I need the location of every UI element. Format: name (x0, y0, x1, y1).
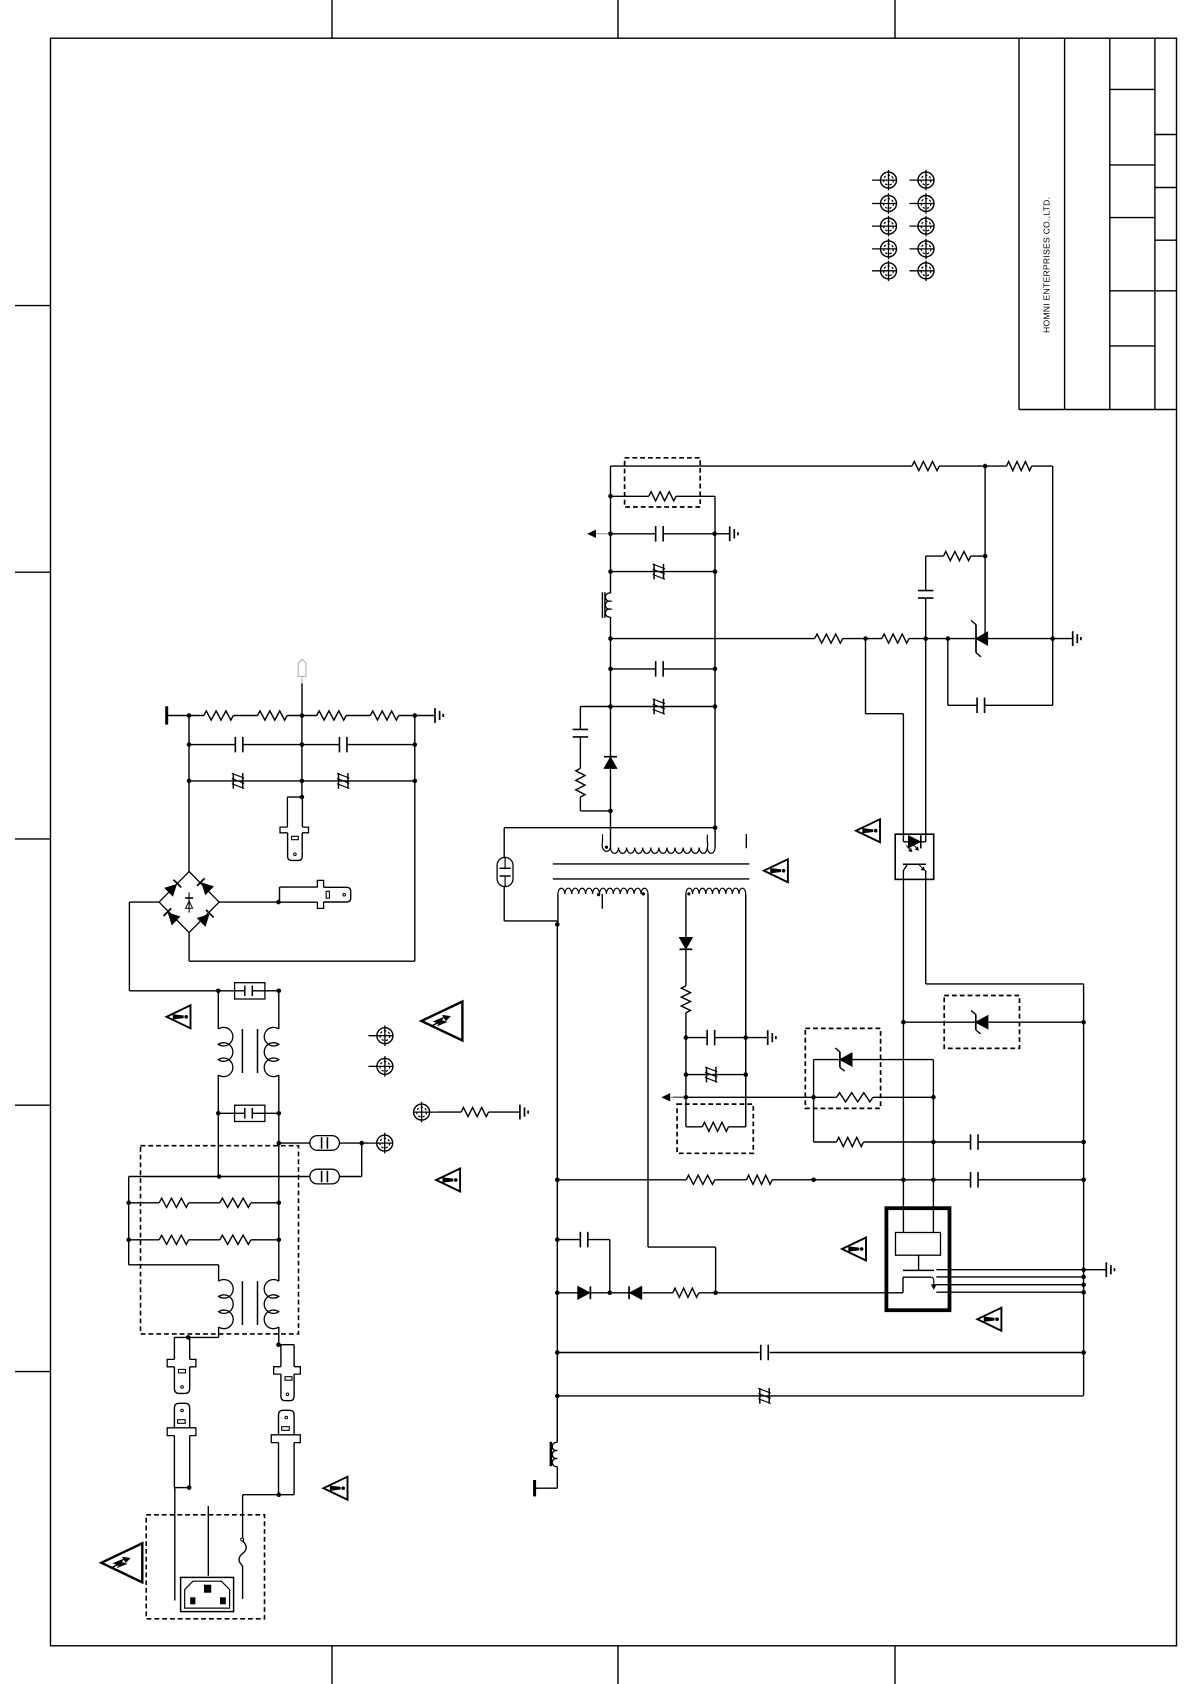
capacitor C3 (655, 526, 657, 542)
wire rrow1 (129, 1202, 160, 1204)
node rb zener (1081, 1020, 1086, 1025)
IC U1 box (886, 1208, 949, 1310)
node row3 center (300, 779, 305, 784)
border tick left 2 (15, 571, 51, 573)
capacitor C9 (970, 1134, 972, 1150)
neon lamp NE1 (497, 857, 513, 886)
fusible resistor F1 (232, 773, 234, 789)
wire pill2 row left (129, 1176, 310, 1178)
node sec1 left (555, 922, 560, 927)
resistor R2 (258, 711, 288, 720)
IC pin 4 (936, 1291, 1083, 1293)
high voltage triangle W9 (101, 1543, 142, 1582)
node 1075 a (684, 1072, 689, 1077)
wire U-link (129, 1264, 219, 1266)
resistor R23 (673, 1288, 699, 1297)
faston tab P3 (173, 1337, 175, 1359)
fusible resistor F4 (653, 564, 655, 580)
AC inlet J10 (181, 1577, 234, 1611)
border tick top 1 (331, 0, 333, 38)
terminal J3b (918, 218, 934, 234)
left snubber bus (610, 466, 612, 593)
wire cap row 1240 (557, 1239, 580, 1241)
capacitor C12 (760, 1345, 762, 1361)
resistor R16 (576, 768, 585, 797)
node row1 center (300, 713, 305, 718)
bridge rectifier BD1 outline (159, 872, 219, 933)
wire comp row (947, 639, 949, 706)
wire hatch row 1075 (686, 1074, 746, 1076)
terminal E2 (377, 1058, 393, 1074)
wire main row 1180 (557, 1179, 686, 1181)
capacitor CY2 pill (310, 1169, 340, 1184)
IC pin 3 (936, 1284, 1083, 1286)
zener diode ZD1 (975, 1014, 977, 1030)
node line2 1097 (931, 1095, 936, 1100)
resistor R9 (220, 1235, 251, 1244)
fusible resistor F7 (759, 1388, 761, 1404)
wire P6 to fuse (243, 1494, 279, 1496)
node 1180 left (555, 1178, 560, 1183)
wire P5 to inlet (174, 1488, 176, 1601)
node 639 bus (608, 636, 613, 641)
node 639 b (923, 636, 928, 641)
terminal J4b (918, 241, 934, 257)
ground row1 (434, 708, 436, 723)
wire reg divider (926, 555, 944, 557)
wire row 669 (611, 668, 656, 670)
snubber branch (579, 707, 581, 730)
wire arrow row 1097 (673, 1096, 837, 1098)
transformer T1 core (553, 863, 750, 865)
wire pill2 right riser (361, 1143, 363, 1176)
resistor R6 (159, 1198, 189, 1207)
node rb p1 (1081, 1267, 1086, 1272)
wire center bus (301, 716, 303, 798)
ground 639 (1072, 631, 1074, 646)
zener2 dashed box (805, 1028, 880, 1108)
node 669 b (713, 667, 718, 672)
thermal fuse F3 (241, 1538, 244, 1541)
secondary1 phase dot b (642, 892, 645, 895)
IC U1 mosfet (903, 1269, 934, 1271)
node rb p3 (1081, 1282, 1086, 1287)
node collector-zrow (901, 1020, 906, 1025)
stub terminator left (165, 706, 168, 724)
border tick top 2 (617, 0, 619, 38)
wire R4-right (399, 715, 435, 717)
transformer T1 primary winding (602, 834, 610, 851)
node 1038 a (684, 1035, 689, 1040)
wire 1240 leg (609, 1240, 611, 1293)
bridge diode D1 (165, 885, 176, 896)
capacitor C7 (573, 728, 589, 730)
resistor R13 (815, 634, 843, 643)
wire row1 left (167, 715, 204, 717)
wire choke1 left to row (217, 1113, 219, 1176)
node 572 b (713, 569, 718, 574)
wire reg vert (984, 466, 986, 638)
terminal J5a (881, 263, 897, 279)
capacitor C2 (338, 737, 340, 753)
wire xcap1 row (129, 990, 234, 992)
wire R1-R2 (233, 715, 257, 717)
terminal E3 with bleed resistor (414, 1104, 430, 1120)
ground 534 (729, 526, 731, 541)
wire right drop (1052, 466, 1054, 705)
wire cap row 1353 (557, 1352, 759, 1354)
wire primary left lead (610, 811, 612, 848)
node rb p4 (1081, 1290, 1086, 1295)
choke L1 left winding (217, 991, 219, 1029)
border tick bottom 1 (331, 1646, 333, 1684)
node xcap2 b (277, 1111, 282, 1116)
resistor R14 (882, 634, 909, 643)
wire bridge left down (128, 902, 130, 991)
wire pill1 right lead (339, 1142, 368, 1144)
node 639 d (1050, 636, 1055, 641)
faston receptacle P6 (279, 1410, 295, 1435)
choke L1 right winding (278, 991, 280, 1029)
wire cap row 1038 (686, 1037, 707, 1039)
resistor R4 (370, 711, 398, 720)
capacitor C10 (970, 1172, 972, 1188)
left bus (556, 924, 558, 1442)
node lb hatch (555, 1394, 560, 1399)
wire cap branch (925, 556, 927, 590)
resistor R11 (1007, 462, 1032, 471)
wire fb resistor (686, 1126, 702, 1128)
node row3 b (413, 779, 418, 784)
capacitor C8 (706, 1030, 708, 1046)
earth stub (207, 1506, 209, 1576)
resistor R7 (220, 1198, 251, 1207)
resistor R20 (837, 1137, 864, 1146)
node P6 bottom (277, 1492, 282, 1497)
bridge diode D4 (198, 915, 209, 926)
wire 639 right (988, 638, 1053, 640)
X-capacitor CX1 (235, 983, 265, 999)
node 706 b (713, 704, 718, 709)
wire sec1 return (648, 1246, 716, 1248)
wire neon top (503, 828, 505, 858)
wire row 706 (580, 706, 715, 708)
diode D6 (680, 938, 693, 949)
faston receptacle P5 (174, 1403, 189, 1428)
wire snubber bottom (579, 797, 581, 811)
zener shunt reg U3 (975, 625, 977, 653)
wire R2-center (287, 715, 317, 717)
resistor R18 (837, 1093, 873, 1102)
node 1075 b (743, 1072, 748, 1077)
wire zener row (903, 1021, 975, 1023)
terminal J4a (881, 241, 897, 257)
warning triangle W3 (842, 1238, 866, 1261)
IC pin 1 (936, 1269, 1106, 1271)
node 639 c (946, 636, 951, 641)
wire neon row (504, 827, 715, 829)
secondary1 center tap (601, 894, 603, 909)
primary phase dot (605, 846, 608, 849)
wire right snubber bus (714, 496, 716, 827)
node pill junction (359, 1141, 364, 1146)
border tick bottom 2 (617, 1646, 619, 1684)
diode D7 (578, 1286, 590, 1299)
node neon row (713, 825, 718, 830)
AC inlet dashed box (146, 1515, 264, 1619)
resistor R22 (747, 1175, 773, 1184)
wire R5-ground (489, 1111, 520, 1113)
border tick left 3 (15, 838, 51, 840)
node 639 a (863, 636, 868, 641)
node 669 a (608, 667, 613, 672)
wire 1142 leg (813, 1097, 815, 1142)
terminal J5b (918, 263, 934, 279)
optocoupler U2 (895, 834, 934, 879)
terminal J2b (918, 196, 934, 212)
node xcap1 a (216, 989, 221, 994)
wire zrow2 (814, 1059, 840, 1061)
node line2 1142 (931, 1140, 936, 1145)
wire pill1 left lead (279, 1142, 310, 1144)
node top rail (983, 464, 988, 469)
node diode mid (608, 1291, 613, 1296)
node collector-main (901, 1178, 906, 1183)
wire choke1 to pill1 (278, 1113, 280, 1281)
wire R17 down (685, 1013, 687, 1127)
stub terminator output (533, 1480, 536, 1496)
node rrow2 left (126, 1238, 131, 1243)
node rb main (1081, 1178, 1086, 1183)
wire rrow2 (129, 1239, 160, 1241)
resistor R3 (317, 711, 347, 720)
wire bus 617-706 (610, 617, 612, 707)
zener dashed box (944, 996, 1019, 1049)
wire R3-R4 (346, 715, 370, 717)
resistor R1 (204, 711, 234, 720)
wire zd2 leg (813, 1060, 815, 1098)
resistor R19 (702, 1122, 728, 1131)
border tick left 4 (15, 1104, 51, 1106)
choke L2 left winding (219, 1280, 234, 1329)
faston tab P1 vertical (286, 797, 288, 827)
terminal J3a (881, 218, 897, 234)
wire hatch row 1396 (557, 1395, 1083, 1397)
node rb cap2 (1081, 1350, 1086, 1355)
node rrow2 right (277, 1238, 282, 1243)
node 556 (983, 554, 988, 559)
ground IC (1105, 1262, 1107, 1277)
X-capacitor CX2 (235, 1105, 265, 1121)
wire bridge right (219, 901, 279, 903)
node rb cap1 (1081, 1140, 1086, 1145)
node rrow1 right (277, 1201, 282, 1206)
wire top rail (611, 465, 913, 467)
choke L2 core (241, 1281, 243, 1325)
node P5 bottom (187, 1485, 192, 1490)
node 706 a (608, 704, 613, 709)
terminal J2a (881, 196, 897, 212)
border tick left 5 (15, 1371, 51, 1373)
node row2 a (187, 742, 192, 747)
transformer T1 secondary 2 (686, 888, 746, 894)
choke L2 right winding (264, 1280, 279, 1329)
capacitor CY1 pill (310, 1136, 340, 1151)
wire diode row (557, 1292, 578, 1294)
resistor R12 (649, 492, 676, 501)
node 572 a (608, 569, 613, 574)
border tick left 1 (15, 305, 51, 307)
node row2 center (300, 742, 305, 747)
warning triangle W6 (764, 859, 788, 882)
fusible resistor F6 (706, 1067, 708, 1083)
warning triangle W4 (977, 1308, 1001, 1331)
IC pin 2 (936, 1276, 1083, 1278)
capacitor C4 (918, 590, 934, 592)
arrow vref (663, 1096, 685, 1098)
secondary1 phase dot a (597, 893, 600, 896)
wire opto feed a (865, 639, 867, 714)
node row1 b (413, 713, 418, 718)
svg-text:HOMNI ENTERPRISES CO.,LTD.: HOMNI ENTERPRISES CO.,LTD. (1042, 197, 1052, 333)
node rb p2 (1081, 1275, 1086, 1280)
wire row 534 (611, 533, 656, 535)
bridge diode D3 (168, 913, 179, 924)
resistor R5 (461, 1108, 488, 1117)
wire bridge left (129, 901, 159, 903)
node 534 a (608, 532, 613, 537)
node snubber (608, 809, 613, 814)
warning triangle W7 (324, 1477, 348, 1500)
wire startup row (611, 495, 649, 497)
zener diode ZD2 (839, 1052, 841, 1068)
high voltage triangle W8 (421, 1002, 462, 1041)
wire neon bottom (503, 887, 505, 921)
wire left leg down (128, 1177, 130, 1265)
wire xcap2 row (218, 1112, 234, 1114)
diode D8 (628, 1286, 630, 1299)
node faston N top (276, 1342, 281, 1347)
node 1097 a (684, 1095, 689, 1100)
ground E3 (519, 1105, 521, 1120)
wire row2 (189, 744, 236, 746)
wire D6-R (685, 949, 687, 986)
node 1097 b (811, 1095, 816, 1100)
wire sec1-left join (556, 921, 558, 925)
resistor R10 (912, 462, 939, 471)
title block grid (1018, 38, 1020, 409)
node row3 a (187, 779, 192, 784)
IC U1 control block (896, 1233, 941, 1256)
feedback dashed box (677, 1104, 753, 1153)
wire opto emitter (925, 879, 927, 984)
node faston L top (186, 1335, 191, 1340)
wire long row 639 (611, 638, 815, 640)
terminal J1a (881, 172, 897, 188)
capacitor C6 (655, 661, 657, 677)
fusible resistor F5 (653, 699, 655, 715)
warning triangle W1 (167, 1005, 191, 1028)
EMI filter dashed box (141, 1146, 299, 1334)
wire bridge bottom (188, 933, 190, 962)
resistor R17 (681, 986, 690, 1013)
bridge diode D2 (202, 883, 213, 894)
resistor R8 (159, 1235, 189, 1244)
wire line2 (932, 1060, 934, 1209)
node faston top (300, 795, 305, 800)
bridge center diode mark (188, 892, 190, 912)
node pill2 row (217, 1174, 222, 1179)
wire opto collector (902, 879, 904, 1208)
node xcap1 b (277, 989, 282, 994)
transformer T1 secondary 1 (558, 888, 648, 894)
startup dashed box (625, 458, 701, 507)
capacitor C11 (579, 1232, 581, 1248)
node bridge right (276, 900, 281, 905)
wire right bus (1083, 984, 1085, 1396)
choke L1 core (241, 1029, 243, 1073)
wire fuse to inlet (242, 1566, 244, 1599)
node 1180 a (811, 1178, 816, 1183)
node 1038 b (743, 1035, 748, 1040)
wire row 1142 (814, 1141, 837, 1143)
secondary2 stub (745, 834, 747, 848)
node line2 1180 (931, 1178, 936, 1183)
warning triangle W2 (436, 1169, 460, 1192)
wire row3 (189, 780, 415, 782)
capacitor C1 (234, 737, 236, 753)
terminal E1 (377, 1028, 393, 1044)
resistor R21 (686, 1175, 715, 1184)
gray fuse clip pin (298, 659, 306, 676)
wire row 572 (611, 571, 716, 573)
wire fb right riser (745, 894, 747, 1127)
node xcap2 a (216, 1111, 221, 1116)
border tick bottom 3 (894, 1646, 896, 1684)
capacitor C5 (976, 698, 978, 714)
fusible resistor F2 (338, 773, 340, 789)
node row2 b (413, 742, 418, 747)
wire right bus upper (414, 716, 416, 962)
node diode right (713, 1291, 718, 1296)
secondary2 phase dot (687, 892, 690, 895)
node startup (608, 494, 613, 499)
terminal E4 (377, 1135, 393, 1151)
faston tab P2 horizontal (280, 886, 318, 888)
node row1 a (187, 713, 192, 718)
diode D5 (610, 707, 612, 757)
warning triangle W5 (856, 819, 880, 842)
inductor L4 (556, 1396, 558, 1443)
inductor L3 inline (605, 593, 610, 617)
wire source row (886, 1292, 903, 1294)
node lb cap (555, 1237, 560, 1242)
terminal J1b (918, 172, 934, 188)
arrow feedback (588, 533, 609, 535)
node lb cap2 (555, 1350, 560, 1355)
ground 1038 (767, 1030, 769, 1045)
wire output end (556, 1467, 558, 1489)
border tick top 3 (894, 0, 896, 38)
node pill1 left (277, 1141, 282, 1146)
node lb diode (555, 1291, 560, 1296)
node 534 b (712, 532, 717, 537)
wire left bus upper (188, 716, 190, 872)
faston tab P4 (279, 1344, 294, 1346)
wire fuse pin stem (301, 684, 303, 716)
resistor R15 (944, 552, 971, 561)
node rrow1 left (126, 1201, 131, 1206)
